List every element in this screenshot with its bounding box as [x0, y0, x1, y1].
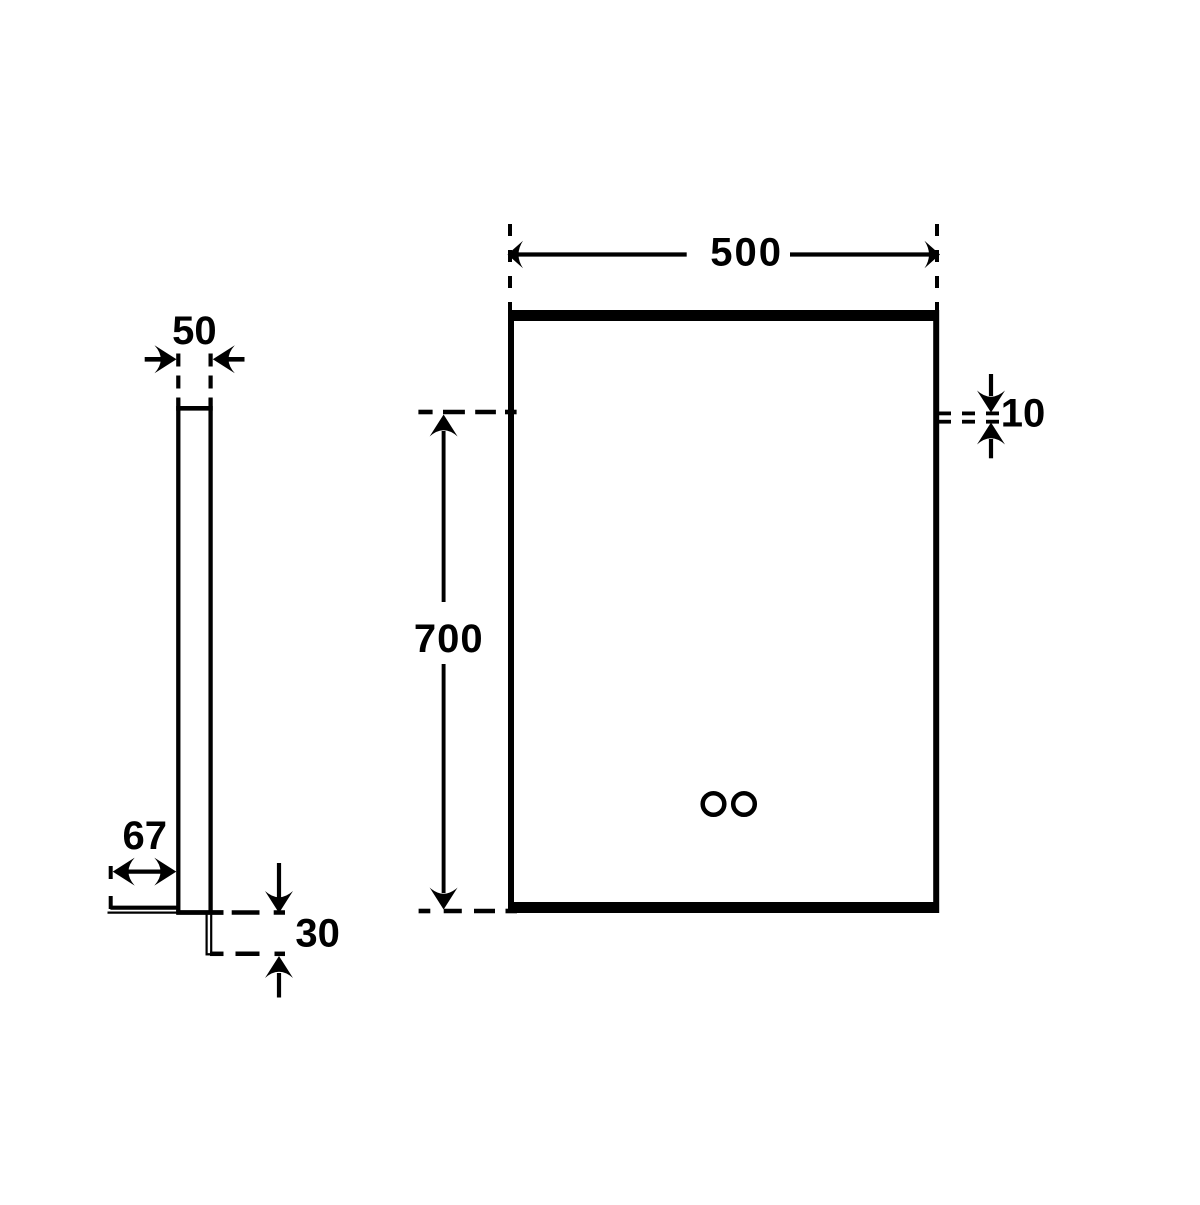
wall bracket thick line — [110, 906, 178, 910]
touch sensor circle right — [733, 793, 755, 815]
extension dash right of 50 — [209, 354, 213, 399]
sensor tab left wall — [206, 913, 208, 955]
500 dim line + arrows — [508, 241, 941, 269]
500 left extension dashes — [508, 224, 512, 310]
svg-text:30: 30 — [295, 911, 340, 955]
30 upper dashed line — [232, 910, 285, 915]
side profile right edge — [208, 399, 212, 913]
side profile left edge — [176, 399, 180, 915]
30 down arrow — [265, 863, 293, 913]
10 bottom arrow — [977, 423, 1005, 459]
10 upper dashed line — [938, 411, 999, 415]
67 extension dashed line — [109, 866, 113, 909]
30 lower dashed line — [210, 952, 285, 957]
500 right extension dashes — [935, 224, 939, 310]
side profile top bar — [176, 406, 213, 411]
wall bracket thin line — [108, 911, 181, 913]
sensor tab right wall — [210, 913, 212, 955]
10 lower dashed line — [938, 420, 999, 424]
svg-text:50: 50 — [172, 309, 217, 353]
10 top arrow — [977, 374, 1005, 413]
50 dim right arrow — [213, 345, 245, 373]
svg-text:700: 700 — [414, 617, 484, 661]
touch sensor circle left — [703, 793, 725, 815]
svg-text:10: 10 — [1001, 392, 1046, 436]
700 dim line + arrows — [430, 415, 458, 910]
svg-text:67: 67 — [123, 814, 168, 858]
svg-text:500: 500 — [710, 231, 783, 275]
30 up arrow — [265, 956, 293, 998]
sensor tab bottom — [206, 953, 213, 955]
side profile bottom plate — [176, 910, 223, 915]
700 bottom dashed line — [419, 909, 517, 914]
mirror rectangle — [508, 310, 939, 913]
700 top dashed line — [418, 410, 516, 415]
50 dim left arrow — [145, 345, 177, 373]
67 double arrow — [113, 858, 177, 886]
extension dash left of 50 — [176, 354, 180, 399]
